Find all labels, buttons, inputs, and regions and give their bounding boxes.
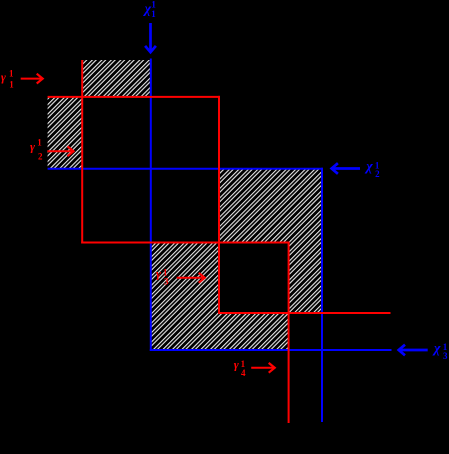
svg-text:χ: χ xyxy=(432,341,441,356)
svg-text:γ: γ xyxy=(30,140,35,154)
node label y_4^1 (red) xyxy=(234,358,246,379)
svg-text:4: 4 xyxy=(241,368,246,378)
arrow x3 (blue, pointing left) xyxy=(399,345,428,356)
svg-text:1: 1 xyxy=(37,138,42,148)
wire blue vertical x=150.8 (B1 right edge + B2 left edge) xyxy=(150,59,152,352)
node label x_2^1 (blue) xyxy=(364,159,380,179)
arrow y1 (red, pointing right) xyxy=(21,74,43,84)
arrow y2 (red, pointing right) xyxy=(47,146,73,156)
wire blue horizontal y=350 (B2 bottom + B3 top edge) xyxy=(150,349,392,351)
svg-text:1: 1 xyxy=(9,79,14,89)
node label y_2^1 (red) xyxy=(30,138,43,162)
svg-text:2: 2 xyxy=(38,152,43,162)
arrow y3 (red, pointing right) xyxy=(177,273,205,283)
wire red vertical x=219 (R1 right edge + R2 left edge) xyxy=(218,96,220,314)
svg-text:3: 3 xyxy=(443,351,448,361)
hatch region A (B1 minus red, top strip) xyxy=(82,60,151,98)
arrow x1 (blue, pointing down) xyxy=(145,23,156,52)
svg-text:1: 1 xyxy=(151,9,156,19)
hatch region C2 (B2 minus red, right strip) xyxy=(289,243,322,314)
wire red horizontal y=242.5 (R1 bottom + R2 top edge) xyxy=(81,242,289,244)
svg-text:χ: χ xyxy=(364,159,373,174)
wire blue horizontal y=168.7 (B1 bottom + B2 top edge) xyxy=(48,168,323,170)
svg-text:γ: γ xyxy=(1,70,6,84)
hatch region C3 (B2 minus red, left strip) xyxy=(151,243,219,314)
node label x_3^1 (blue) xyxy=(432,341,448,361)
arrow y4 (red, pointing right) xyxy=(251,363,275,373)
svg-text:γ: γ xyxy=(234,358,239,372)
hatch region C1 (B2 minus red, top-right strip) xyxy=(219,169,322,243)
node label y_1^1 (red) xyxy=(1,69,14,90)
wire red horizontal y=96.9 (R0 bottom + R1 top edge) xyxy=(48,96,220,98)
svg-text:3: 3 xyxy=(164,277,169,287)
arrow x2 (blue, pointing left) xyxy=(332,163,360,174)
node label y_3^1 (red) xyxy=(156,267,169,287)
node label x_1^1 (blue) xyxy=(143,0,157,19)
wire red vertical x=288.6 (R2 right edge + R3 left edge) xyxy=(288,242,290,424)
hatch region C4 (B2 minus red, bottom strip) xyxy=(151,313,289,350)
wire red vertical x=82 (R0 right edge + R1 left edge) xyxy=(81,60,83,244)
hatch region B (B1 minus red, left strip) xyxy=(48,97,83,169)
wire red horizontal y=313 (R2 bottom + R3 top edge) xyxy=(218,312,391,314)
svg-text:γ: γ xyxy=(156,267,161,281)
wire blue vertical x=322 (B2 right edge + B3 left edge) xyxy=(321,168,323,422)
svg-text:1: 1 xyxy=(9,69,14,79)
svg-text:2: 2 xyxy=(375,169,380,179)
